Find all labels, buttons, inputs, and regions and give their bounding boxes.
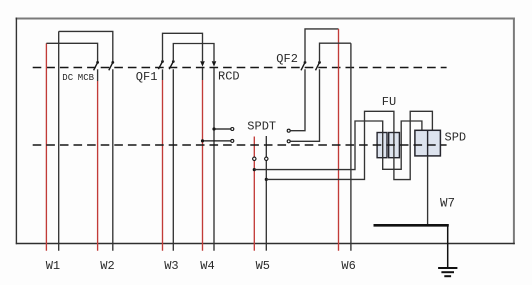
svg-text:QF2: QF2: [276, 52, 298, 66]
enclosure border top: [16, 18, 515, 20]
wire W5- tap to fuse FU2: [266, 111, 394, 179]
svg-text:SPD: SPD: [445, 130, 467, 144]
wire SPDT left throw bottom (from W4+): [203, 140, 231, 142]
RCD plug-in arrow pole 1: [200, 61, 205, 66]
enclosure border bottom: [16, 243, 515, 245]
fuse FU2 body: [389, 133, 400, 158]
svg-text:SPDT: SPDT: [247, 119, 276, 133]
terminal circle on W5+: [253, 157, 256, 160]
svg-text:W6: W6: [341, 259, 355, 273]
wire W5+ tap to fuse FU1: [254, 121, 382, 170]
node W4+ tap junction: [201, 139, 204, 142]
svg-text:FU: FU: [382, 95, 396, 109]
fuse FU1 wire through: [382, 133, 384, 158]
breaker QF1 pole 2 contact: [169, 60, 175, 69]
wire W6 negative: [350, 43, 352, 251]
svg-text:QF1: QF1: [136, 70, 158, 84]
svg-text:W3: W3: [164, 259, 178, 273]
RCD plug-in arrow pole 2: [212, 61, 217, 66]
breaker QF1 pole 1 contact: [158, 60, 164, 69]
fuse FU2 wire through: [393, 133, 395, 158]
wire W1 negative: [58, 31, 60, 250]
svg-text:RCD: RCD: [218, 69, 240, 83]
svg-text:MCB: MCB: [78, 73, 95, 83]
wire W1 positive (red): [45, 43, 47, 250]
wire W4 negative: [213, 68, 215, 251]
terminal circle SPDT left bottom: [231, 139, 234, 142]
wire QF2 pole 2 loop: [320, 43, 351, 62]
enclosure border left: [15, 18, 17, 245]
enclosure border right: [513, 18, 515, 245]
wire QF2 pole 1 loop: [305, 29, 339, 63]
wire SPDT left throw top (from W4-): [214, 128, 231, 130]
PE earthing bar: [374, 224, 449, 227]
svg-text:W7: W7: [440, 197, 455, 211]
node W5+ tap junction: [253, 168, 256, 171]
fuse FU1 body: [377, 133, 387, 158]
terminal circle SPDT left top: [231, 128, 234, 131]
breaker DC MCB pole 1 contact: [94, 61, 99, 70]
terminal circle SPDT right bottom: [287, 140, 290, 143]
wire W6 positive (red): [338, 29, 340, 251]
wire FU2 output to SPD cell 2: [394, 111, 433, 179]
wire FU1 output to SPD cell 1: [383, 121, 422, 169]
SPD center divider: [427, 130, 429, 156]
bus 2 (second dashed busbar): [33, 144, 447, 146]
wire W2 positive (red, from DC MCB pole 1): [97, 69, 99, 81]
terminal circle on W5-: [265, 157, 268, 160]
wire W7 (SPD earth lead): [427, 156, 429, 225]
svg-text:W5: W5: [256, 259, 270, 273]
wire PE bar to ground: [447, 225, 449, 268]
node W5- tap junction: [265, 178, 268, 181]
wire SPDT right throw bottom to QF2 pole 2: [290, 69, 319, 141]
switch SPDT common blade W5 negative: [265, 136, 267, 251]
breaker QF2 pole 2 contact: [316, 61, 321, 70]
node W4- tap junction: [212, 127, 215, 130]
breaker QF2 pole 1 contact: [301, 61, 306, 70]
ground symbol: [438, 268, 457, 276]
svg-text:W2: W2: [100, 259, 114, 273]
wire QF1 pole 1 loop to RCD: [163, 33, 203, 61]
wire QF1 pole 2 loop to RCD: [173, 44, 214, 62]
wire W3 positive (red): [162, 80, 164, 251]
terminal circle SPDT right top: [287, 129, 290, 132]
switch SPDT common blade W5 positive (red): [253, 137, 255, 251]
surge protector SPD body: [415, 130, 441, 156]
wire W3 negative: [172, 69, 174, 250]
svg-text:W4: W4: [200, 259, 214, 273]
breaker DC MCB pole 2 contact: [109, 61, 114, 70]
wire W1 loop to DC MCB pole 1: [46, 43, 97, 61]
wire SPDT right throw top to QF2 pole 1: [290, 69, 305, 130]
bus 1 (top dashed busbar): [33, 67, 447, 69]
wire W2 negative (from DC MCB pole 2): [112, 69, 114, 250]
wire W4 positive (red, below RCD): [202, 68, 204, 80]
svg-text:W1: W1: [46, 259, 60, 273]
wire W1- loop to DC MCB pole 2: [59, 31, 113, 61]
svg-text:DC: DC: [62, 73, 73, 83]
